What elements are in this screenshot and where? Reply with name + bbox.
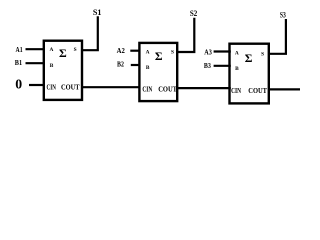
svg-text:Σ: Σ: [245, 51, 253, 65]
svg-text:B: B: [50, 63, 54, 69]
svg-text:CIN: CIN: [47, 83, 57, 92]
svg-text:A3: A3: [204, 49, 212, 56]
svg-text:B1: B1: [15, 60, 23, 67]
svg-text:A: A: [50, 47, 54, 53]
svg-text:A1: A1: [16, 47, 24, 54]
svg-text:S: S: [261, 52, 264, 58]
svg-text:A: A: [235, 51, 239, 57]
svg-text:B2: B2: [117, 62, 124, 69]
svg-text:S3: S3: [280, 10, 286, 19]
svg-text:COUT: COUT: [248, 86, 267, 95]
svg-text:S2: S2: [190, 9, 197, 18]
svg-text:S1: S1: [93, 8, 102, 17]
svg-text:COUT: COUT: [61, 83, 80, 92]
svg-text:CIN: CIN: [231, 86, 241, 95]
svg-text:S: S: [74, 47, 77, 53]
svg-text:B: B: [235, 66, 239, 72]
svg-text:S: S: [171, 50, 174, 56]
svg-text:A: A: [146, 49, 150, 55]
svg-text:B3: B3: [204, 63, 211, 70]
svg-text:Σ: Σ: [59, 46, 67, 60]
svg-text:0: 0: [15, 76, 22, 91]
svg-text:B: B: [146, 65, 150, 71]
svg-text:COUT: COUT: [158, 84, 177, 93]
svg-text:A2: A2: [117, 48, 126, 55]
svg-text:Σ: Σ: [155, 49, 163, 63]
svg-text:CIN: CIN: [142, 84, 152, 93]
